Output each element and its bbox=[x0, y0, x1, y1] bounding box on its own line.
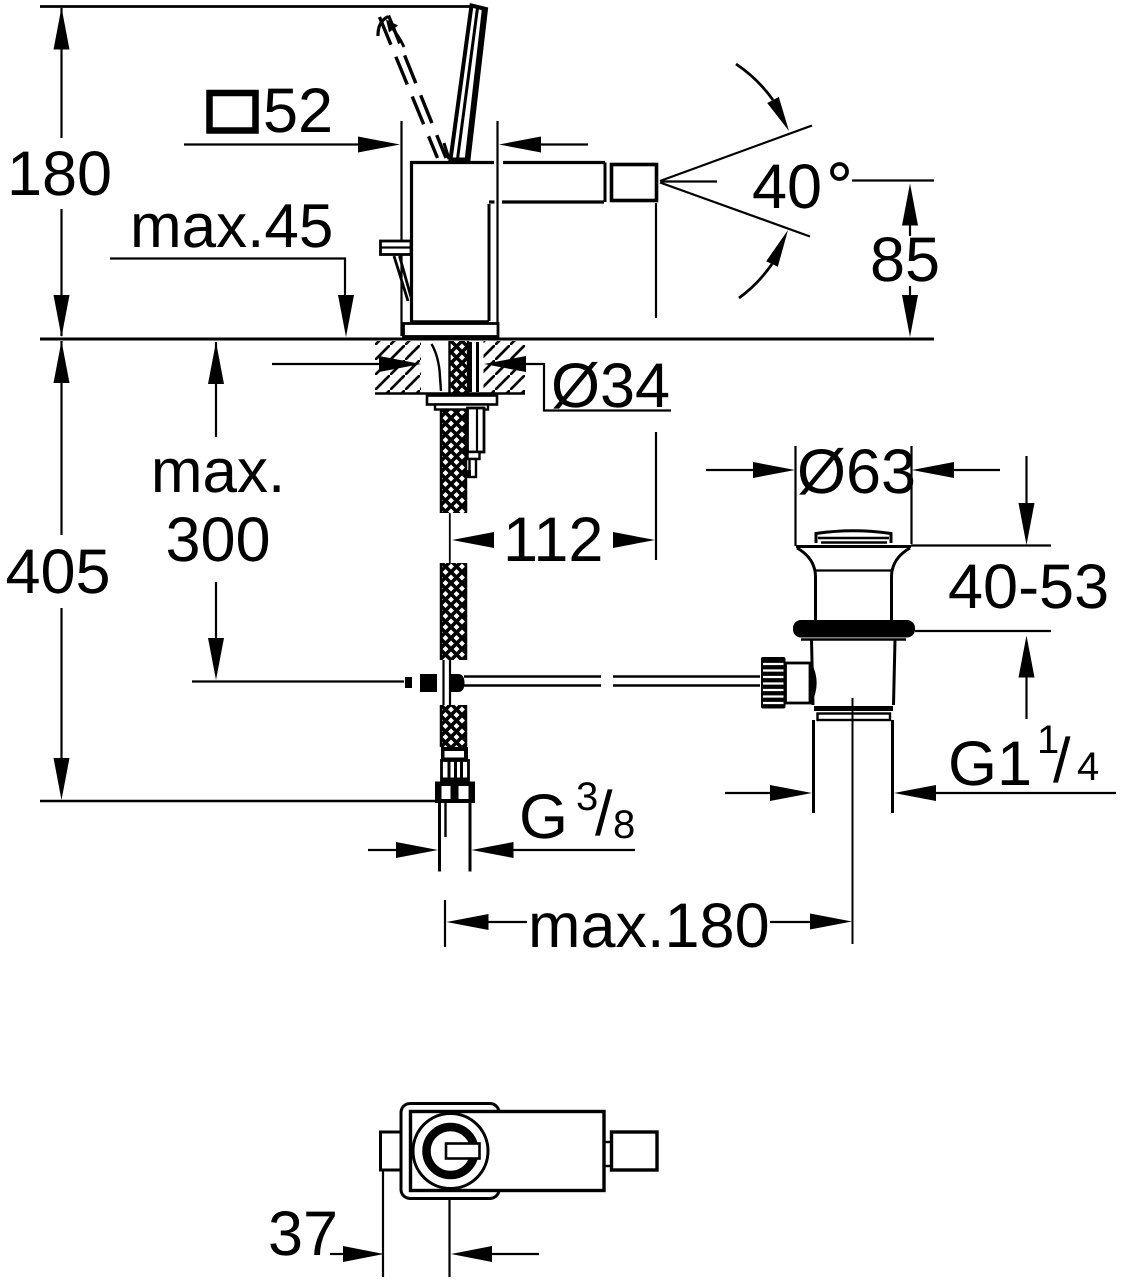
spout top line bbox=[503, 161, 605, 164]
svg-text:max.45: max.45 bbox=[130, 192, 333, 261]
degree ring bbox=[832, 164, 847, 179]
topview body bbox=[411, 1112, 605, 1191]
SECTION: countertop mounting bbox=[272, 341, 671, 421]
pull rod guide tube bbox=[468, 408, 485, 452]
spout end edge bbox=[604, 163, 607, 203]
svg-text:G1: G1 bbox=[948, 729, 1032, 799]
pull rod horizontal right part bbox=[613, 675, 760, 677]
topview aerator tab bbox=[612, 1132, 658, 1170]
spout bottom line bbox=[489, 200, 495, 203]
leader o-ring to 40-53 bbox=[915, 630, 1051, 632]
side protrusion inner line bbox=[381, 246, 410, 248]
pull rod horizontal left part bbox=[464, 675, 601, 677]
topview spout joint lines bbox=[604, 1141, 611, 1143]
svg-text:112: 112 bbox=[503, 505, 603, 575]
extension line left of 52 bbox=[400, 121, 402, 336]
svg-text:max.180: max.180 bbox=[528, 891, 770, 961]
dimension 112 arrow left bbox=[452, 532, 494, 548]
arrow left diam34 bbox=[484, 356, 526, 372]
arrow down 405 bottom bbox=[54, 758, 70, 800]
dimension 180 line bbox=[60, 8, 62, 138]
dimension diam63 left arrow bbox=[706, 469, 754, 471]
svg-text:Ø63: Ø63 bbox=[797, 437, 916, 507]
countertop hatch right bbox=[484, 341, 526, 393]
SECTION: flexible hose and pull rod bbox=[192, 408, 852, 961]
arrow down max.300 bbox=[208, 638, 224, 680]
shank curve in hole bbox=[432, 344, 442, 391]
hose braid segment C bbox=[441, 705, 466, 747]
wire bottom reference line bbox=[40, 800, 436, 803]
locknut bar 2 bbox=[435, 405, 488, 410]
dimension 85 bottom arrow bbox=[909, 286, 911, 297]
svg-text:180: 180 bbox=[7, 139, 112, 209]
dimension G1 1/4 left arrow bbox=[725, 792, 771, 794]
dimension G3/8 left arrow bbox=[368, 849, 397, 851]
drain bell left side bbox=[797, 548, 816, 620]
dimension diam63 right arrow bbox=[912, 462, 954, 478]
handle motion arc bbox=[392, 28, 404, 47]
hose braid segment A bbox=[441, 409, 466, 513]
topview G bar bbox=[446, 1144, 480, 1159]
SECTION: spray fan and 85 dimension bbox=[656, 64, 940, 560]
shank braid in hole bbox=[450, 341, 469, 393]
svg-text:85: 85 bbox=[870, 225, 940, 295]
fan lower arc arrow bbox=[739, 264, 772, 298]
pull rod foot bbox=[466, 470, 471, 478]
wire countertop line bbox=[40, 338, 934, 341]
extension line below aerator bbox=[655, 203, 657, 318]
fan upper arc arrow bbox=[736, 64, 773, 100]
arrow up max.300 bbox=[208, 342, 224, 384]
dimension 405 line bbox=[60, 341, 62, 535]
arrow right diam34 bbox=[379, 356, 421, 372]
drain o-ring seal bbox=[793, 620, 915, 638]
dimension 40-53 top arrow bbox=[1025, 456, 1027, 503]
dimension 52 line left bbox=[184, 143, 360, 145]
handle lever inner line 2 bbox=[467, 10, 484, 159]
fan upper line bbox=[660, 126, 812, 182]
svg-text:max.: max. bbox=[151, 437, 285, 506]
topview G ring bbox=[427, 1127, 475, 1175]
rod coupler right bullet bbox=[451, 674, 465, 692]
aerator bbox=[612, 165, 657, 201]
countertop bottom line bbox=[375, 392, 525, 395]
dimension 37 right arrow bbox=[451, 1246, 492, 1262]
faucet body top line bbox=[410, 161, 494, 164]
leader diam34 bbox=[526, 364, 671, 411]
dimension G3/8 right arrow bbox=[472, 842, 514, 858]
drain centerline bbox=[852, 698, 854, 944]
handle motion hook bbox=[378, 17, 388, 37]
fan lower line bbox=[660, 183, 810, 237]
G3/8 pipe bbox=[438, 803, 441, 872]
handle lever dashed position line 1 bbox=[380, 17, 438, 158]
dimension 37 centerline bbox=[448, 1199, 450, 1277]
faucet body bottom line bbox=[411, 320, 489, 323]
drain knob stem bbox=[786, 663, 811, 703]
svg-text:52: 52 bbox=[263, 76, 333, 146]
drain stem arc bbox=[810, 663, 815, 703]
pull rod tube in hole bbox=[469, 342, 472, 392]
extension line diam63 right bbox=[910, 446, 912, 544]
dimension 112 arrow right bbox=[613, 532, 655, 548]
handle lever inner line 1 bbox=[458, 8, 478, 159]
svg-text:/: / bbox=[595, 779, 613, 849]
dimension max.300 line bbox=[215, 342, 217, 437]
dimension max.180 tick bbox=[444, 900, 446, 947]
square symbol of 52 bbox=[210, 93, 256, 131]
locknut bar 1 bbox=[427, 396, 497, 405]
hose nut bbox=[435, 782, 475, 787]
rod coupler left block bbox=[420, 674, 437, 692]
drain flange top line bbox=[796, 545, 911, 548]
dimension diam34 shaft left bbox=[272, 363, 390, 365]
arrow down max.45 bbox=[338, 295, 354, 337]
dimension 85 top arrow bbox=[902, 184, 918, 226]
faucet body left edge bbox=[410, 161, 413, 322]
drain cap dome bbox=[816, 531, 891, 543]
arrow up 180 top bbox=[54, 8, 70, 50]
leader flange to 40-53 bbox=[911, 544, 1051, 546]
extension line diam63 left bbox=[794, 446, 796, 546]
drain band 1 bbox=[814, 706, 893, 711]
pull rod step bbox=[468, 452, 480, 459]
handle motion arrowhead bbox=[386, 20, 398, 33]
svg-text:300: 300 bbox=[165, 505, 270, 575]
drain knob knurled bbox=[761, 657, 786, 709]
hose tube at rod crossing bbox=[442, 660, 444, 705]
handle lever solid bbox=[451, 6, 487, 160]
SECTION: pop-up drain valve bbox=[706, 437, 1116, 944]
SECTION: left dimensions bbox=[5, 8, 588, 801]
dimension 37 extension left bbox=[382, 1171, 384, 1277]
line right of degree bbox=[852, 179, 934, 181]
handle base stroke bbox=[444, 143, 449, 159]
topview left tab bbox=[381, 1132, 402, 1170]
topview base plate bbox=[401, 1104, 499, 1199]
svg-text:40-53: 40-53 bbox=[948, 552, 1109, 622]
side protrusion diagonal 1 bbox=[394, 256, 408, 301]
dimension 37 left arrow bbox=[330, 1253, 344, 1255]
svg-text:40: 40 bbox=[752, 152, 822, 222]
pull rod lower bbox=[470, 459, 477, 477]
arrow right 52 bbox=[358, 137, 400, 153]
drain body below seal bbox=[801, 638, 906, 640]
arrow left max.180 bbox=[447, 914, 489, 930]
drain tailpipe bbox=[812, 720, 815, 813]
arrow left 52 bbox=[499, 137, 541, 153]
dimension 52 line right bbox=[541, 143, 588, 145]
wire top reference line bbox=[40, 5, 470, 8]
svg-text:G: G bbox=[519, 782, 568, 852]
arrow up 405 top bbox=[54, 341, 70, 383]
arrow down 180 bottom bbox=[54, 295, 70, 337]
countertop hatch left bbox=[375, 341, 421, 393]
drain bell right side bbox=[892, 548, 911, 620]
arrow right max.180 bbox=[770, 921, 810, 923]
extension line right of 52 bbox=[496, 121, 498, 336]
drain band 2 bbox=[818, 714, 891, 721]
faucet body right edge bbox=[488, 204, 491, 321]
drain bell joint line bbox=[816, 569, 891, 571]
svg-text:37: 37 bbox=[268, 1199, 338, 1269]
handle lever dashed position line 2 bbox=[389, 16, 447, 159]
svg-text:405: 405 bbox=[5, 537, 110, 607]
side protrusion diagonal 2 bbox=[400, 256, 412, 297]
hose centerline between braids bbox=[449, 513, 451, 563]
hose braid segment B bbox=[441, 563, 466, 660]
dimension 40-53 bottom arrow bbox=[1019, 636, 1035, 678]
side protrusion bbox=[381, 241, 412, 255]
SECTION: top view bbox=[268, 1104, 657, 1278]
hose ferrule bbox=[441, 747, 468, 761]
base plate bbox=[404, 324, 499, 337]
dimension G1 1/4 right arrow bbox=[894, 785, 936, 801]
topview handle circle bbox=[413, 1114, 488, 1189]
SECTION: faucet body bbox=[378, 6, 657, 337]
rod extension line left bbox=[192, 680, 404, 682]
fan middle line bbox=[661, 180, 717, 182]
hose compression fitting bbox=[442, 761, 469, 782]
svg-text:/: / bbox=[1053, 726, 1071, 796]
leader max.45 bbox=[110, 259, 345, 297]
rod coupler small block bbox=[405, 677, 412, 688]
svg-text:Ø34: Ø34 bbox=[551, 351, 670, 421]
